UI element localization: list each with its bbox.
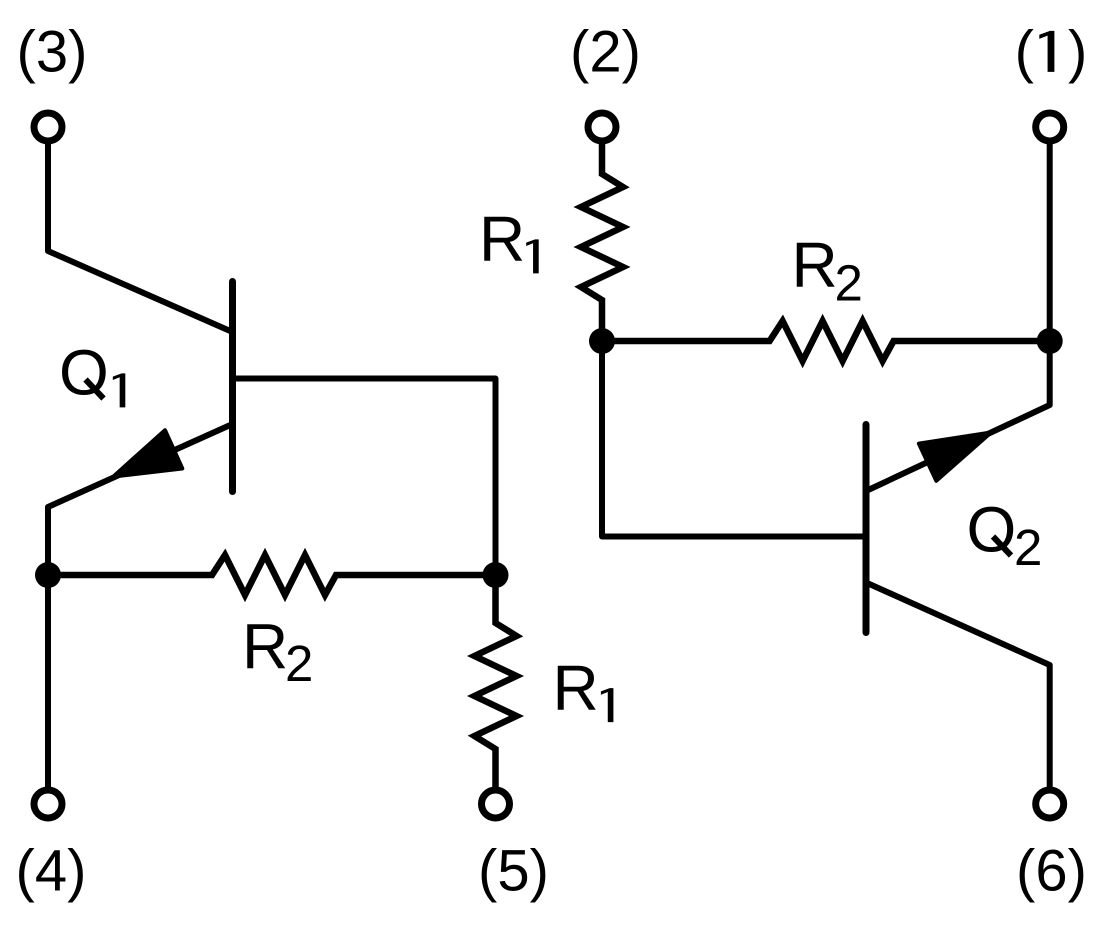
svg-text:(: ( — [1015, 20, 1034, 85]
svg-text:2: 2 — [835, 255, 863, 312]
Q1 emitter arrow — [114, 430, 183, 476]
R2 right label — [792, 229, 863, 312]
svg-text:): ) — [1068, 20, 1087, 85]
terminal pin 1 — [1036, 113, 1064, 141]
node junction left — [35, 562, 61, 588]
svg-text:2: 2 — [285, 635, 313, 692]
svg-text:(5): (5) — [478, 839, 549, 904]
R1 right label — [479, 203, 539, 275]
resistor R2 left (horizontal) — [48, 555, 496, 595]
svg-text:R: R — [792, 229, 838, 301]
svg-text:(3): (3) — [17, 20, 88, 85]
wire node A down and Q2 base horizontal — [602, 341, 866, 537]
svg-text:R: R — [553, 652, 599, 724]
svg-text:R: R — [479, 203, 525, 275]
node junction right — [483, 562, 509, 588]
resistor R2 right (horizontal) — [602, 321, 1050, 361]
terminal pin 4 — [34, 790, 62, 818]
svg-text:(2): (2) — [570, 20, 641, 85]
R2 left label — [242, 611, 313, 693]
node junction A — [589, 328, 615, 354]
svg-text:(4): (4) — [16, 839, 87, 904]
R1 left label — [553, 652, 614, 724]
svg-text:2: 2 — [1014, 519, 1042, 576]
wire pin1 down and Q2 emitter diagonal — [866, 141, 1050, 491]
resistor R1 right (vertical) — [581, 141, 623, 341]
terminal pin 3 — [34, 113, 62, 141]
wire Q2 collector diagonal down to pin6 — [866, 583, 1050, 791]
wire pin3 down and Q1 collector diagonal — [48, 141, 233, 332]
terminal pin 5 — [482, 790, 510, 818]
pin label (1) — [1015, 20, 1088, 85]
svg-text:R: R — [242, 611, 288, 683]
transistor Q2 base bar — [863, 425, 870, 633]
wire Q1 emitter diagonal down to pin4 — [48, 424, 233, 790]
svg-text:(6): (6) — [1016, 839, 1087, 904]
resistor R1 left (vertical) — [475, 575, 517, 790]
Q2 emitter arrow — [919, 433, 991, 481]
transistor Q1 label — [59, 337, 125, 409]
wire Q1 base to right and down — [233, 379, 496, 576]
terminal pin 6 — [1036, 790, 1064, 818]
terminal pin 2 — [588, 113, 616, 141]
transistor Q2 label — [967, 494, 1043, 577]
node junction B — [1037, 328, 1063, 354]
transistor Q1 base bar — [229, 282, 236, 492]
